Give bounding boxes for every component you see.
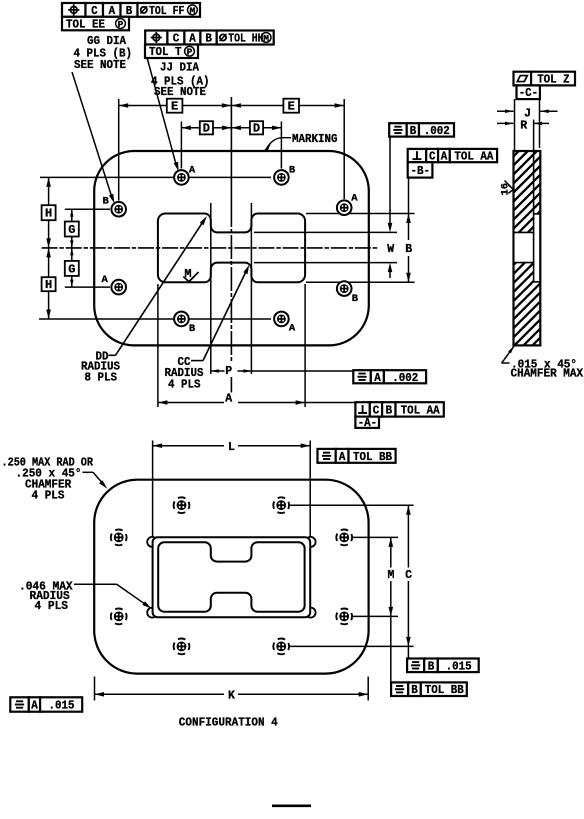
svg-text:A: A — [189, 165, 196, 177]
svg-text:B: B — [386, 404, 393, 417]
svg-text:TOL BB: TOL BB — [425, 684, 464, 697]
bottom view hole 4 — [336, 530, 352, 546]
extension line section step — [533, 120, 535, 150]
svg-text:4 PLS: 4 PLS — [168, 378, 201, 391]
section hatch left lower — [514, 263, 534, 282]
bottom view hole 6 — [336, 609, 352, 625]
svg-text:B: B — [205, 33, 212, 46]
svg-text:R: R — [520, 119, 527, 132]
svg-text:TOL BB: TOL BB — [353, 451, 392, 464]
extension line L right to boss — [309, 481, 311, 537]
feature control frame: position |C|A|B| dia TOL HH (M) — [145, 31, 274, 46]
datum -B- box — [408, 162, 433, 178]
extension line A right — [304, 284, 306, 407]
dimension D — [181, 121, 281, 135]
svg-text:M: M — [190, 5, 196, 16]
note JJ DIA 4 PLS (A) SEE NOTE — [151, 62, 210, 99]
vertical centerline — [230, 97, 232, 393]
MARKING label and leader — [264, 133, 337, 151]
dimension J — [497, 107, 558, 120]
svg-text:B: B — [411, 684, 418, 697]
section recess white strip — [534, 214, 541, 282]
dimension H upper — [42, 177, 56, 248]
svg-text:P: P — [187, 47, 193, 58]
top view hole 8 (A) — [274, 312, 296, 335]
extension line top hole row — [40, 176, 271, 178]
label 16 with arrow — [499, 181, 513, 196]
note .046 MAX RADIUS 4 PLS with leader — [19, 580, 152, 613]
top view hole 2 (B) — [274, 165, 296, 185]
center slot dog-bone cutout — [158, 214, 305, 283]
note GG DIA 4 PLS (B) SEE NOTE — [74, 35, 133, 72]
datum -A- box — [355, 417, 379, 431]
note CC RADIUS 4 PLS with leader — [165, 265, 250, 392]
svg-text:TOL Z: TOL Z — [537, 74, 570, 87]
extension line D left col — [180, 122, 182, 169]
svg-text:-C-: -C- — [519, 87, 539, 100]
top view hole 5 (A) — [102, 274, 126, 294]
title CONFIGURATION 4 — [179, 717, 278, 730]
svg-text:TOL HH: TOL HH — [228, 33, 263, 46]
extension line P right — [250, 203, 252, 374]
horizontal centerline — [42, 247, 379, 249]
svg-text:L: L — [228, 441, 235, 454]
svg-text:SEE NOTE: SEE NOTE — [154, 86, 206, 99]
svg-text:A: A — [102, 274, 109, 286]
top view hole 1 (A) — [174, 165, 196, 185]
svg-text:-B-: -B- — [411, 165, 431, 178]
svg-text:MARKING: MARKING — [292, 133, 338, 146]
boss corner ears — [147, 537, 315, 618]
svg-text:.015: .015 — [49, 700, 75, 713]
dimension G lower — [65, 248, 79, 287]
svg-text:TOL T: TOL T — [149, 46, 182, 59]
feature control frame symmetry A .015 — [10, 697, 82, 712]
svg-text:M: M — [263, 33, 269, 44]
top view hole 7 (B) — [174, 312, 196, 335]
svg-text:E: E — [288, 100, 295, 114]
svg-text:C: C — [373, 404, 380, 417]
svg-text:K: K — [228, 690, 235, 703]
svg-text:B: B — [289, 165, 296, 177]
section hatch lower block — [514, 282, 541, 346]
svg-text:4 PLS: 4 PLS — [35, 600, 69, 613]
feature control frame perpendicularity C B TOL AA — [355, 402, 443, 417]
feature control frame perpendicularity C A TOL AA — [408, 149, 497, 164]
extension line D right col — [280, 122, 282, 169]
svg-text:W: W — [387, 243, 394, 256]
dimension E — [119, 99, 345, 114]
dimension A — [158, 392, 356, 405]
svg-text:CHAMFER MAX: CHAMFER MAX — [511, 368, 584, 381]
svg-text:8 PLS: 8 PLS — [85, 372, 118, 385]
leader from note2 to hole A1 — [147, 58, 179, 172]
feature control frame: position |C|A|B| dia TOL FF (M) — [62, 3, 200, 18]
extension line hole row1 right — [290, 504, 414, 506]
svg-text:.002: .002 — [424, 125, 450, 138]
extension line E left col — [118, 99, 120, 201]
svg-text:A: A — [289, 323, 296, 335]
dimension L — [153, 441, 311, 479]
extension line hole row2 right — [353, 536, 398, 538]
datum -C- box — [517, 85, 540, 100]
boss inner dog-bone cutout — [158, 542, 304, 611]
feature control frame flatness TOL Z — [514, 72, 576, 87]
feature control frame row2: TOL T (P) — [145, 45, 198, 60]
svg-text:B: B — [352, 293, 359, 305]
label M with arrow at slot bottom edge — [183, 267, 198, 282]
svg-text:B: B — [410, 125, 417, 138]
dimension W (neck height) — [387, 137, 394, 278]
extension line E right col — [343, 99, 345, 199]
svg-text:B: B — [189, 323, 196, 335]
svg-text:.015: .015 — [446, 660, 472, 673]
dimension R — [497, 119, 549, 132]
svg-text:M: M — [388, 569, 395, 582]
extension line neck top right — [254, 231, 397, 233]
section view outline — [514, 151, 541, 345]
bottom view hole 1 — [174, 497, 190, 513]
svg-text:H: H — [45, 207, 52, 221]
svg-text:-A-: -A- — [358, 417, 378, 430]
dimension P — [211, 365, 353, 378]
feature control frame row2: TOL EE (P) — [62, 17, 129, 32]
svg-text:.002: .002 — [392, 372, 418, 385]
extension line slot top right — [306, 213, 415, 215]
bottom view hole 3 — [111, 530, 127, 546]
bottom view hole 7 — [174, 639, 190, 655]
svg-text:4 PLS: 4 PLS — [32, 489, 65, 502]
dimension G upper — [65, 209, 79, 248]
svg-text:JJ DIA: JJ DIA — [160, 62, 199, 75]
section hatch upper block — [514, 151, 541, 214]
extension line neck bottom right — [254, 262, 397, 264]
svg-text:G: G — [68, 262, 75, 276]
extension line L left to boss — [152, 481, 154, 537]
svg-text:A: A — [374, 372, 381, 385]
svg-text:P: P — [118, 19, 124, 30]
extension line bottom hole row — [39, 318, 271, 320]
extension line slot bottom right — [306, 281, 415, 283]
top view hole 4 (A) — [337, 193, 358, 215]
dimension B (slot height) — [405, 178, 412, 283]
section inner step line — [533, 151, 535, 282]
bottom page mark — [272, 804, 311, 807]
svg-text:G: G — [68, 223, 75, 237]
dimension C — [405, 505, 412, 658]
svg-text:GG DIA: GG DIA — [87, 35, 126, 48]
leader from note1 to hole B3 — [72, 72, 115, 204]
extension line section right — [539, 99, 541, 148]
bottom view plate outline — [94, 480, 368, 674]
extension line hole A5 left — [65, 286, 110, 288]
extension line P left — [210, 203, 212, 374]
svg-text:D: D — [253, 122, 260, 136]
svg-text:H: H — [45, 278, 52, 292]
svg-text:P: P — [225, 365, 232, 378]
svg-text:TOL AA: TOL AA — [401, 404, 440, 417]
svg-text:A: A — [351, 193, 358, 205]
extension line hole B3 left — [65, 208, 110, 210]
dimension M — [388, 537, 395, 682]
leader from FCF to W dimension — [389, 137, 391, 140]
bottom view hole 8 — [273, 639, 289, 655]
dimension H lower — [42, 248, 56, 319]
dimension K — [95, 677, 369, 703]
svg-text:B: B — [103, 196, 110, 208]
svg-text:D: D — [203, 122, 210, 136]
svg-text:TOL EE: TOL EE — [66, 19, 105, 32]
chamfer leader and note — [502, 346, 584, 381]
svg-text:B: B — [405, 243, 412, 256]
bottom view hole 2 — [273, 497, 289, 513]
svg-text:SEE NOTE: SEE NOTE — [74, 59, 126, 72]
svg-text:C: C — [405, 569, 412, 582]
feature control frame symmetry B TOL BB — [391, 682, 467, 697]
bottom view hole 5 — [111, 609, 127, 625]
note .250 MAX RAD OR .250 x 45 CHAMFER 4 PLS with leader — [2, 457, 108, 503]
top view hole 3 (B) — [103, 196, 126, 217]
extension line A left — [157, 284, 159, 407]
svg-text:A: A — [31, 700, 38, 713]
top view hole 6 (B) — [337, 281, 359, 305]
feature control frame symmetry A TOL BB — [318, 449, 396, 464]
feature control frame symmetry B .015 — [407, 659, 479, 674]
section neck window — [514, 232, 534, 262]
svg-text:TOL FF: TOL FF — [149, 5, 184, 18]
note DD RADIUS 8 PLS with leader — [81, 216, 207, 385]
extension line hole row4 right — [290, 645, 414, 647]
svg-text:TOL AA: TOL AA — [454, 151, 493, 164]
section hatch left upper — [514, 214, 534, 233]
extension line section left — [514, 99, 516, 150]
extension line hole row3 right — [353, 615, 398, 617]
svg-text:A: A — [225, 392, 232, 405]
boss outline — [153, 537, 311, 617]
top view plate outline — [94, 151, 369, 345]
svg-text:A: A — [441, 151, 448, 164]
feature control frame symmetry B .002 — [389, 123, 454, 138]
feature control frame symmetry A .002 — [353, 370, 426, 385]
svg-text:B: B — [428, 660, 435, 673]
svg-text:A: A — [339, 451, 346, 464]
svg-text:CONFIGURATION 4: CONFIGURATION 4 — [179, 717, 278, 730]
svg-text:E: E — [171, 100, 178, 114]
